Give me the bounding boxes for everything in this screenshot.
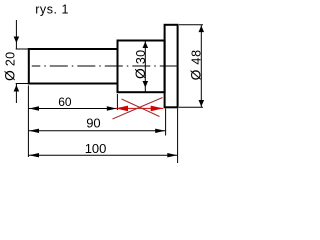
dim Ø20 line lower <box>15 84 17 103</box>
dim Ø48 arrow down <box>199 100 205 107</box>
extension line left (bottom dims) <box>27 86 29 158</box>
shaft section Ø20 outline <box>29 49 118 84</box>
dim Ø20 extension line top <box>16 48 29 50</box>
dim Ø48 line <box>200 25 202 107</box>
dim Ø20 arrow down <box>14 37 20 44</box>
dim 100 arrow left <box>29 153 39 157</box>
dim 100 line <box>29 154 178 156</box>
red cross diagonal B <box>122 99 160 117</box>
red crossed-out dim line <box>116 107 164 109</box>
extension line step1 <box>116 94 118 110</box>
dim Ø20 extension line bottom <box>16 83 29 85</box>
dim 90 arrow left <box>29 129 39 133</box>
dim Ø20 line upper <box>15 20 17 49</box>
dim Ø48 arrow up <box>199 26 205 32</box>
shaft section Ø30 outline <box>118 41 165 93</box>
red dim arrow left <box>116 106 129 112</box>
svg-text:Ø 48: Ø 48 <box>188 49 203 80</box>
dim 60 arrow left <box>29 106 39 110</box>
red cross diagonal A <box>113 98 163 120</box>
dim Ø30 arrow up <box>143 42 149 49</box>
shaft flange Ø48 outline <box>165 25 178 108</box>
extension line right end <box>177 109 179 164</box>
svg-text:Ø 20: Ø 20 <box>3 52 18 81</box>
dim 60 arrow right <box>107 106 117 110</box>
svg-text:90: 90 <box>86 116 100 131</box>
dim 90 line <box>29 130 165 132</box>
dim Ø30 line <box>144 41 146 92</box>
svg-text:60: 60 <box>58 95 72 109</box>
extension line flange left <box>165 109 167 136</box>
dim 90 arrow right <box>155 129 165 133</box>
dim Ø30 arrow down <box>143 81 149 88</box>
svg-text:Ø 30: Ø 30 <box>133 50 148 79</box>
svg-text:100: 100 <box>85 141 107 156</box>
centerline <box>32 65 177 67</box>
dim 100 arrow right <box>167 153 177 157</box>
dim Ø48 extension line top <box>179 24 203 26</box>
dim 60 line <box>29 108 117 110</box>
dim Ø20 arrow up <box>14 85 20 92</box>
red dim arrow right <box>151 106 164 112</box>
dim Ø48 extension line bottom <box>179 106 203 108</box>
svg-text:rys. 1: rys. 1 <box>35 3 69 17</box>
